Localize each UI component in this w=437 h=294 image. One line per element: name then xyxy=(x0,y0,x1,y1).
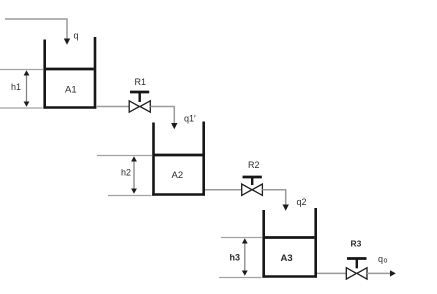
svg-text:h3: h3 xyxy=(230,253,241,263)
h3 extension line top xyxy=(221,237,262,239)
wire pipe2 tank A2 to valve R2 xyxy=(205,189,243,191)
h2 extension line bottom xyxy=(108,195,152,197)
water level 3 xyxy=(265,236,315,239)
arrow qo xyxy=(390,270,396,276)
svg-text:o: o xyxy=(384,258,388,265)
svg-text:h2: h2 xyxy=(121,168,131,178)
arrow q1' xyxy=(171,123,177,129)
wire pipe3b valve R3 out xyxy=(367,272,392,274)
wire pipe1b valve R1 to tank A2 xyxy=(150,107,174,125)
tank A3 bottom xyxy=(262,275,317,278)
wire pipe3 tank A3 to valve R3 xyxy=(317,272,347,274)
tank A1 right wall xyxy=(94,37,97,109)
wire pipe1 tank A1 to valve R1 xyxy=(96,106,130,108)
tank A1 left wall xyxy=(43,40,46,109)
wire pipe2b valve R2 to tank A3 xyxy=(262,190,285,206)
arrow q xyxy=(64,39,70,45)
wire inflow q horizontal xyxy=(5,19,67,40)
svg-text:q2: q2 xyxy=(297,197,307,207)
h2 extension line top xyxy=(97,155,152,157)
svg-text:A3: A3 xyxy=(281,253,293,264)
tank A2 left wall xyxy=(152,123,155,196)
tank A3 right wall xyxy=(314,208,317,278)
tank A1 bottom xyxy=(43,106,96,109)
arrow q2 xyxy=(283,205,289,211)
h2 dimension arrow xyxy=(133,159,135,192)
tank A2 right wall xyxy=(202,122,205,196)
svg-text:q: q xyxy=(74,31,79,41)
h1 dimension arrow xyxy=(26,72,28,105)
svg-text:R1: R1 xyxy=(135,77,147,87)
svg-text:A1: A1 xyxy=(65,85,77,96)
svg-text:R3: R3 xyxy=(351,238,362,248)
water level 2 xyxy=(154,154,202,157)
valve R3 xyxy=(347,257,367,260)
h3 dimension arrow xyxy=(244,241,246,274)
svg-text:q1′: q1′ xyxy=(184,114,196,124)
svg-text:A2: A2 xyxy=(172,170,184,181)
h1 extension line top xyxy=(0,69,43,71)
svg-text:h1: h1 xyxy=(11,82,21,92)
svg-text:R2: R2 xyxy=(248,160,260,170)
tank A2 bottom xyxy=(152,193,205,196)
water level 1 xyxy=(46,68,94,71)
h1 extension line bottom xyxy=(0,107,43,109)
h3 extension line bottom xyxy=(219,277,262,279)
valve R2 xyxy=(243,176,262,179)
svg-text:q: q xyxy=(378,254,383,264)
valve R1 xyxy=(130,91,149,94)
tank A3 left wall xyxy=(262,210,265,278)
